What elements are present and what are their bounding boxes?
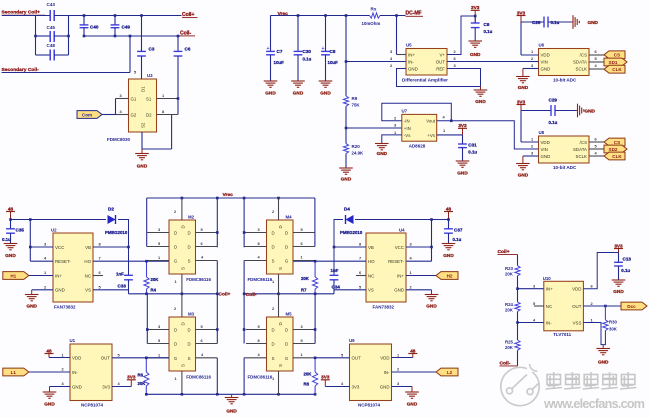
svg-text:U8: U8: [539, 130, 545, 135]
svg-text:VDD: VDD: [541, 140, 550, 145]
value 0.1u of C28: [551, 20, 560, 25]
svg-text:D2: D2: [146, 112, 152, 117]
wire phase Coil+: [129, 293, 218, 295]
svg-text:U6: U6: [539, 43, 545, 48]
svg-text:D: D: [271, 328, 274, 333]
junction 3V3 C9: [474, 15, 477, 18]
ground of bridge bus: [225, 394, 239, 413]
resistor R23: [505, 266, 520, 277]
value 20K of R7: [301, 276, 310, 281]
wire U2 HO to M2 gate: [93, 260, 169, 262]
resistor R30: [603, 306, 618, 332]
wire U10 VDD to 3V3: [583, 253, 618, 289]
wire R23 to tap1: [517, 276, 519, 302]
junction C40 bottom: [83, 35, 86, 38]
junction M2 right D: [216, 231, 219, 234]
svg-text:Coil-: Coil-: [180, 30, 191, 36]
svg-text:D: D: [187, 231, 190, 236]
svg-text:GND: GND: [394, 288, 404, 293]
sideways ground for C28: [571, 15, 599, 29]
svg-text:SD1: SD1: [609, 60, 618, 65]
svg-text:S: S: [181, 267, 186, 270]
wire Coil- horizontal: [84, 35, 180, 37]
port SD1: [604, 58, 627, 66]
wire U7 feedback loop: [382, 103, 452, 121]
ground under C35: [4, 244, 18, 259]
svg-text:3V3: 3V3: [102, 384, 110, 389]
capacitor C30: [294, 16, 303, 82]
ground under U8: [516, 156, 530, 178]
wire U6 SCLK: [589, 68, 604, 70]
svg-text:GND: GND: [426, 304, 437, 309]
svg-text:R6: R6: [138, 373, 144, 378]
svg-text:VS: VS: [85, 288, 91, 293]
svg-text:48: 48: [410, 348, 416, 353]
junction C8 top: [324, 14, 327, 17]
svg-text:SDATA: SDATA: [573, 60, 587, 65]
power port 3V3 for U10: [614, 243, 623, 252]
svg-text:VDD: VDD: [541, 53, 550, 58]
pin names U7 left: [404, 119, 411, 138]
svg-text:VDD: VDD: [380, 355, 389, 360]
label C13: [623, 257, 632, 262]
net label DC-MF: [406, 11, 424, 17]
junction C37: [447, 218, 450, 221]
svg-text:GND: GND: [265, 91, 276, 96]
junction divider top: [345, 14, 348, 17]
svg-text:IN-: IN-: [546, 320, 552, 325]
label C31: [468, 143, 477, 148]
svg-text:3V3: 3V3: [517, 99, 526, 104]
capacitor C29: [521, 105, 576, 116]
svg-text:IN-: IN-: [72, 370, 78, 375]
pin names U5 right: [436, 52, 446, 71]
power port 3V3 near U5: [471, 5, 480, 23]
diode D4 symbol: [346, 215, 354, 224]
port CLK lower: [604, 152, 625, 160]
pin names U6 right: [573, 53, 587, 72]
svg-text:GND: GND: [457, 171, 468, 176]
svg-text:3V3: 3V3: [127, 375, 136, 380]
svg-text:GND: GND: [408, 66, 418, 71]
junction C6 top: [177, 35, 180, 38]
pin numbers U2 right: [99, 242, 102, 290]
svg-text:U5: U5: [406, 43, 412, 48]
pin S2 wire: [141, 132, 143, 149]
wire stack left vertical: [35, 16, 37, 56]
svg-text:D: D: [285, 328, 288, 333]
wire diode to VB corner right: [334, 220, 343, 276]
junction phase R4: [145, 293, 148, 296]
svg-text:PMEG2010: PMEG2010: [340, 230, 363, 235]
capacitor C37: [444, 220, 453, 244]
part name Differential Amplifier: [402, 78, 448, 83]
wire H2 to U4: [406, 275, 436, 277]
svg-text:IN+: IN+: [408, 52, 415, 57]
svg-text:0.1u: 0.1u: [621, 268, 630, 273]
value 20K of R4: [151, 277, 160, 282]
junction rail M2d: [216, 197, 219, 200]
pin letters of M5: [271, 322, 288, 367]
wire Com to gates: [102, 114, 116, 116]
ground under U6: [516, 69, 530, 91]
pin name D1 rotated: [141, 86, 146, 92]
svg-text:VCC: VCC: [55, 245, 64, 250]
component U8 ADC body: [539, 136, 590, 163]
port SD2: [604, 145, 627, 153]
junction 48 wire U2: [29, 218, 32, 221]
svg-text:S: S: [188, 259, 191, 264]
junction tap IN+: [516, 287, 519, 290]
wire 3V3 to U8 VDD: [520, 111, 522, 143]
svg-text:7: 7: [359, 256, 361, 261]
pin D2 stub: [157, 109, 179, 115]
net label Vrec bridge: [223, 192, 234, 198]
svg-text:R4: R4: [151, 288, 157, 293]
pin names U7 right: [426, 119, 436, 138]
svg-text:C29: C29: [549, 98, 558, 103]
wire divider tap to U7 IN+: [346, 127, 402, 129]
ground under C13: [612, 280, 626, 294]
svg-text:C48: C48: [47, 43, 56, 48]
pin numbers U5 left: [390, 49, 393, 68]
svg-text:C40: C40: [90, 24, 99, 29]
svg-text:Secondary Coil-: Secondary Coil-: [2, 67, 40, 73]
pin names G2 D2: [131, 112, 153, 117]
label R4: [151, 288, 157, 293]
svg-text:NC: NC: [368, 273, 374, 278]
svg-text:+: +: [267, 46, 270, 52]
label M2: [188, 214, 195, 219]
svg-text:Vout: Vout: [426, 119, 436, 124]
svg-text:VDD: VDD: [72, 355, 81, 360]
resistor R25: [505, 340, 520, 351]
svg-text:Vrec: Vrec: [223, 192, 234, 198]
svg-text:C3: C3: [149, 47, 155, 52]
svg-text:7: 7: [99, 256, 101, 261]
wire VCC feed vertical left: [29, 220, 31, 262]
pin numbers U9 right: [397, 352, 400, 386]
transistor M5 body: [267, 317, 294, 371]
label U8: [539, 130, 545, 135]
pin names G1 S1: [131, 96, 152, 101]
pin S1 stub: [157, 93, 179, 99]
svg-text:D4: D4: [344, 206, 350, 211]
pin numbers U9 left: [341, 352, 344, 386]
svg-text:D: D: [174, 231, 177, 236]
wire VCC feed vertical right: [431, 220, 433, 262]
part name 10-bit ADC U6: [553, 78, 577, 83]
junction bus R8: [314, 393, 317, 396]
wire U6 SDATA: [589, 61, 604, 63]
ground under U4: [425, 290, 439, 309]
wire M4 drain vertical: [243, 198, 245, 247]
junction OUT R8: [314, 357, 317, 360]
sideways ground for C29: [576, 104, 596, 118]
pin number 5 of U3: [134, 70, 137, 75]
port L2: [436, 368, 458, 376]
value 0.1u of C37: [453, 237, 462, 242]
label M3: [188, 311, 195, 316]
gate driver U1 body: [70, 344, 112, 401]
label U7: [402, 108, 408, 113]
wire R25 to Coil-: [517, 350, 519, 366]
pin names U9 left: [352, 355, 362, 389]
junction VB bootstrap: [127, 246, 130, 249]
watermark logo circle: [501, 363, 539, 406]
pin numbers U4 right: [410, 242, 413, 290]
svg-text:1nF: 1nF: [331, 268, 339, 273]
wire rail left vertical: [146, 198, 148, 247]
svg-text:Secondary Coil+: Secondary Coil+: [2, 10, 41, 16]
junction phase R7: [314, 293, 317, 296]
wire M3 drain vertical: [146, 294, 148, 344]
junction at x130: [129, 35, 132, 38]
svg-text:GND: GND: [585, 108, 596, 113]
svg-text:GND: GND: [320, 91, 331, 96]
junction M5 right D: [314, 328, 317, 331]
capacitor C9: [471, 16, 480, 41]
wire L2 to U9: [392, 371, 437, 373]
svg-text:HO: HO: [84, 259, 91, 264]
svg-text:GND: GND: [541, 154, 551, 159]
label C34: [332, 285, 341, 290]
svg-text:-Vs: -Vs: [404, 133, 411, 138]
svg-text:U3: U3: [147, 73, 153, 78]
wire U10 VSS down: [583, 323, 605, 345]
junction S1: [177, 97, 180, 100]
svg-text:L1: L1: [11, 370, 17, 375]
wire U8 CS: [589, 141, 604, 143]
label C30: [303, 49, 312, 54]
svg-text:C35: C35: [16, 228, 25, 233]
wire M5 source down: [243, 358, 245, 395]
svg-text:3V3: 3V3: [321, 375, 330, 380]
svg-text:GND: GND: [26, 304, 37, 309]
svg-text:3V3: 3V3: [614, 243, 623, 248]
label U1: [70, 338, 76, 343]
svg-text:GND: GND: [443, 253, 454, 258]
svg-text:30K: 30K: [609, 327, 618, 332]
ground under C37: [442, 244, 456, 259]
svg-text:75K: 75K: [352, 103, 361, 108]
svg-text:0.1u: 0.1u: [551, 20, 560, 25]
pin names U10 left: [546, 287, 553, 326]
value 10uF of C8: [328, 60, 339, 65]
junction rail M4 top: [277, 197, 280, 200]
junction C40 top: [83, 14, 86, 17]
svg-text:IN-: IN-: [384, 370, 390, 375]
pin U4 NC stub: [356, 275, 366, 277]
wire L1 to U1: [29, 371, 70, 373]
pin stubs M4 right: [293, 227, 315, 247]
svg-text:FDMC86116: FDMC86116: [186, 375, 211, 380]
wire U5 REF GND loop: [397, 69, 481, 87]
pin M4 gate stub: [293, 255, 316, 261]
power port 48 for U1: [45, 348, 54, 357]
ground under U2: [25, 290, 39, 309]
svg-text:10-bit ADC: 10-bit ADC: [553, 78, 577, 83]
wire phase Coil-: [244, 293, 334, 295]
svg-text:HO: HO: [368, 259, 375, 264]
svg-text:GND: GND: [293, 91, 304, 96]
junction VB bootstrap right: [333, 246, 336, 249]
label C6: [185, 47, 191, 52]
value 1nF of C34: [331, 268, 339, 273]
svg-text:GND: GND: [518, 85, 529, 90]
pin M4 top: [272, 198, 279, 220]
pin numbers U4 left: [359, 242, 362, 290]
svg-text:/CS: /CS: [580, 140, 587, 145]
svg-text:10mOhm: 10mOhm: [362, 21, 381, 26]
wire S2 to D2 leg: [142, 148, 172, 150]
capacitor C28: [521, 17, 573, 28]
part name of M5: [248, 375, 273, 380]
svg-text:D: D: [285, 245, 288, 250]
svg-text:+: +: [322, 46, 325, 52]
label D4: [344, 206, 350, 211]
svg-text:D: D: [187, 342, 190, 347]
svg-text:24.9K: 24.9K: [352, 151, 365, 156]
svg-text:FDMC8030: FDMC8030: [107, 137, 131, 142]
wire M3 right drain vertical: [216, 294, 218, 344]
junction divider tap2: [345, 127, 348, 130]
svg-text:Coil+: Coil+: [182, 12, 194, 18]
svg-text:CLK: CLK: [612, 67, 622, 72]
svg-text:Rx: Rx: [371, 6, 377, 11]
svg-text:0.1u: 0.1u: [468, 150, 477, 155]
capacitor C13: [614, 253, 623, 281]
junction bus R6: [145, 393, 148, 396]
pin letters of M2: [174, 225, 191, 270]
resistor R6 gate M3: [144, 358, 149, 395]
ground under U10: [596, 345, 610, 365]
pin letters of M3: [174, 322, 191, 367]
label U2: [51, 228, 57, 233]
svg-text:C7: C7: [277, 49, 283, 54]
junction DC-MF vertical: [395, 14, 398, 17]
svg-text:20K: 20K: [505, 345, 514, 350]
label U10: [543, 276, 552, 281]
pin M3 gate stub: [147, 352, 169, 358]
svg-text:20K: 20K: [505, 272, 514, 277]
capacitor C48: [36, 43, 69, 60]
wire U6 GND: [523, 68, 539, 70]
junction HO R7: [314, 260, 317, 263]
svg-text:FDMC86116: FDMC86116: [248, 277, 273, 282]
junction rail M4d: [243, 197, 246, 200]
svg-text:GND: GND: [341, 177, 352, 182]
power port 3V3 for U6: [517, 10, 526, 22]
junction C49 top: [114, 14, 117, 17]
pin numbers U8 left: [531, 137, 534, 156]
svg-text:/CS: /CS: [580, 53, 587, 58]
svg-text:10-bit ADC: 10-bit ADC: [553, 165, 577, 170]
svg-text:48: 48: [46, 348, 52, 353]
svg-text:Differential Amplifier: Differential Amplifier: [402, 78, 448, 83]
svg-text:U1: U1: [70, 338, 76, 343]
ground under U7: [375, 144, 389, 157]
svg-text:GND: GND: [137, 164, 148, 169]
svg-text:www.elecfans.com: www.elecfans.com: [543, 397, 645, 411]
svg-text:NC: NC: [85, 273, 91, 278]
wire divider tap to U5 IN-: [346, 61, 406, 63]
part PMEG2010 left: [105, 230, 128, 235]
svg-text:GND: GND: [475, 99, 486, 104]
label U9: [349, 338, 355, 343]
ground under C9: [468, 41, 482, 57]
svg-text:R24: R24: [505, 302, 513, 307]
wire divider vertical upper: [345, 16, 347, 97]
transistor M4 body: [267, 220, 294, 274]
svg-text:FDMC86116: FDMC86116: [186, 277, 211, 282]
pin numbers U10 right: [591, 283, 594, 322]
junction U7 Vout: [450, 120, 453, 123]
svg-text:GND: GND: [44, 402, 55, 407]
wire to Secondary Coil- vertical: [129, 36, 131, 73]
svg-text:C31: C31: [468, 143, 477, 148]
pin stubs M4 left: [244, 227, 266, 247]
pin names U8 right: [573, 140, 587, 159]
wire U8 SCLK: [589, 155, 604, 157]
power port 48 for U9: [408, 348, 417, 357]
svg-text:IN+: IN+: [55, 273, 62, 278]
label M5: [286, 311, 293, 316]
part name of M2: [186, 277, 211, 282]
ground under U3: [135, 149, 149, 169]
svg-text:Coil+: Coil+: [498, 249, 510, 255]
pin letters of M4: [271, 225, 288, 270]
power port 3V3 for U1: [127, 375, 136, 387]
pin numbers U6 left: [531, 49, 534, 68]
svg-text:Dcc: Dcc: [627, 304, 636, 309]
svg-text:C45: C45: [47, 25, 56, 30]
svg-text:V+: V+: [440, 52, 446, 57]
svg-text:GND: GND: [598, 360, 609, 365]
net label Coil+ bridge: [219, 291, 231, 297]
junction bus M5bot: [277, 393, 280, 396]
svg-text:20K: 20K: [138, 381, 147, 386]
pin numbers U8 right: [595, 137, 598, 156]
svg-text:IN-: IN-: [408, 59, 414, 64]
junction VCC: [29, 246, 32, 249]
wire 48 rail right: [355, 219, 449, 221]
pin names U10 right: [572, 287, 582, 326]
svg-text:CS: CS: [614, 140, 620, 145]
svg-text:0.1u: 0.1u: [549, 120, 558, 125]
svg-text:C33: C33: [118, 284, 127, 289]
svg-text:S: S: [272, 259, 275, 264]
svg-text:NCP81074: NCP81074: [81, 402, 104, 407]
svg-text:20K: 20K: [151, 277, 160, 282]
wire U5 OUT to U6 VIN: [447, 61, 539, 63]
svg-text:C49: C49: [122, 24, 131, 29]
label C40: [90, 24, 99, 29]
component U6 ADC body: [539, 49, 590, 76]
wire Rx to DC-MF: [380, 15, 406, 17]
pin stubs M3 right: [196, 324, 218, 344]
pin names U1 right: [101, 355, 111, 389]
gate driver U4 body: [366, 233, 406, 302]
svg-text:NCP81074: NCP81074: [358, 402, 381, 407]
pin G2 stub: [116, 109, 129, 115]
pin numbers U1 right: [118, 352, 121, 386]
wire bridge GND bus: [146, 393, 315, 395]
part name of M4: [248, 277, 273, 282]
part name of U2: [54, 305, 76, 310]
capacitor C3: [137, 16, 146, 80]
wire U2 RESET: [30, 260, 53, 262]
